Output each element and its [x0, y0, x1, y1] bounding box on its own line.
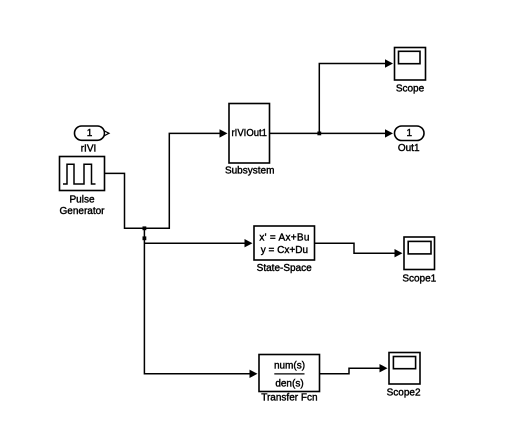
svg-text:rIVIOut1: rIVIOut1	[232, 128, 268, 139]
svg-text:1: 1	[87, 128, 93, 139]
svg-text:den(s): den(s)	[275, 378, 303, 389]
svg-text:Scope1: Scope1	[402, 273, 436, 284]
svg-text:num(s): num(s)	[274, 361, 305, 372]
svg-text:Scope2: Scope2	[387, 387, 421, 398]
svg-text:x' = Ax+Bu: x' = Ax+Bu	[259, 233, 309, 244]
svg-text:y = Cx+Du: y = Cx+Du	[261, 245, 308, 256]
svg-text:State-Space: State-Space	[257, 263, 312, 274]
svg-text:Pulse: Pulse	[69, 195, 94, 206]
svg-text:Subsystem: Subsystem	[225, 165, 274, 176]
svg-text:1: 1	[407, 128, 413, 139]
svg-text:Out1: Out1	[398, 143, 420, 154]
svg-text:Generator: Generator	[59, 206, 105, 217]
svg-text:Scope: Scope	[396, 83, 425, 94]
svg-text:rIVI: rIVI	[81, 144, 97, 155]
svg-text:Transfer Fcn: Transfer Fcn	[261, 393, 317, 404]
